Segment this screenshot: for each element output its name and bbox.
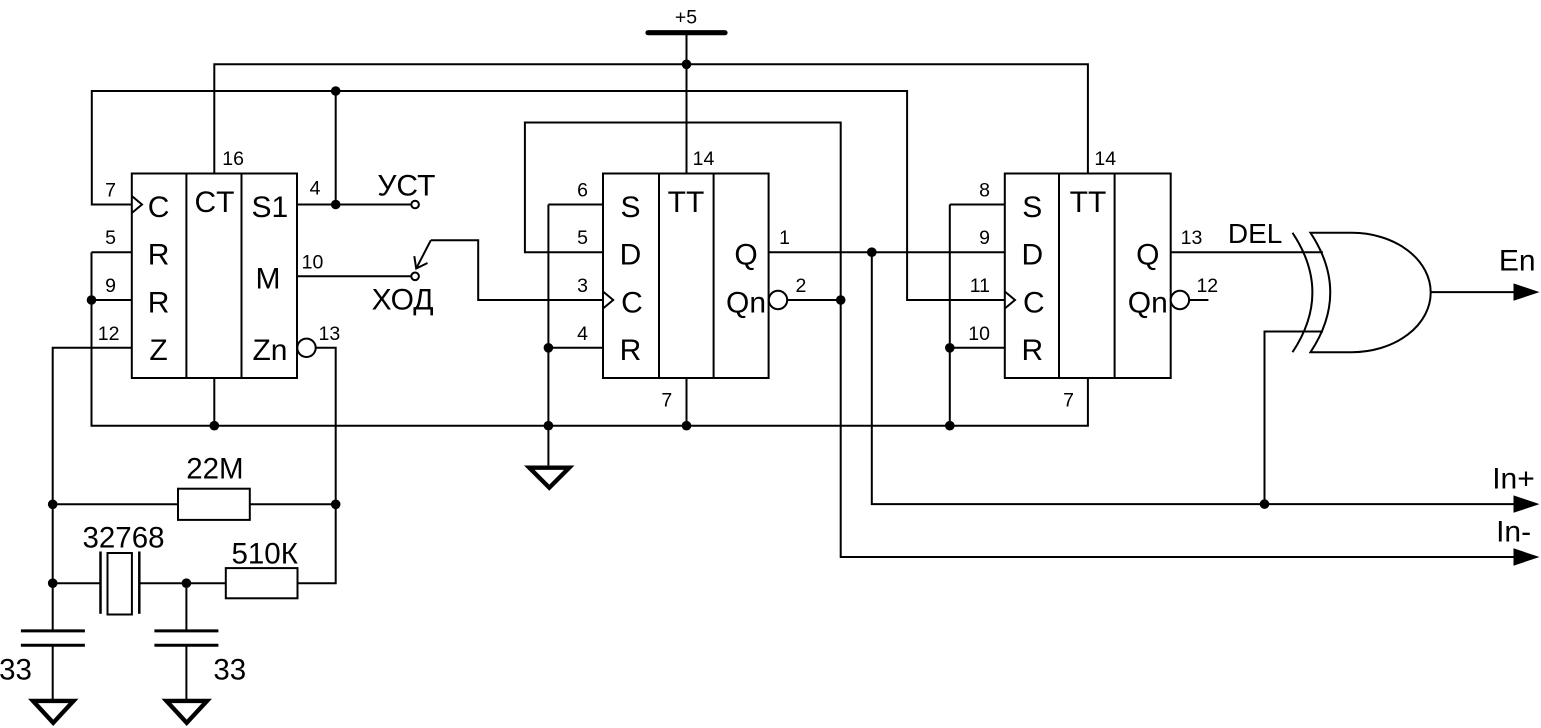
crystal ZQ1 32768 bbox=[53, 522, 226, 615]
node 22M right bbox=[331, 500, 341, 510]
svg-text:5: 5 bbox=[105, 227, 116, 249]
svg-text:TT: TT bbox=[668, 186, 705, 219]
svg-text:13: 13 bbox=[319, 323, 341, 345]
wire clock bus (DD1 pin7 to DD3 pin11) bbox=[92, 91, 1005, 300]
counter DD1 body bbox=[132, 174, 297, 379]
node DD2 pin7 on bus bbox=[682, 421, 692, 431]
svg-text:C: C bbox=[1023, 286, 1045, 319]
capacitor C1 33 bbox=[0, 583, 85, 700]
node In+ XOR branch bbox=[1260, 499, 1270, 509]
node DD2 vertical on ground bus bbox=[544, 421, 554, 431]
terminal УСТ bbox=[411, 201, 419, 209]
node S1 junction bbox=[331, 200, 341, 210]
svg-text:M: M bbox=[256, 263, 281, 296]
node DD3 vertical on ground bus bbox=[945, 421, 955, 431]
wire Q branch down to In+ bbox=[872, 252, 1516, 504]
svg-text:510К: 510К bbox=[231, 538, 298, 571]
svg-text:33: 33 bbox=[0, 653, 32, 686]
node clock bus branch bbox=[331, 86, 341, 96]
wire switch to DD2 pin3 C bbox=[431, 240, 603, 300]
svg-text:ХОД: ХОД bbox=[372, 284, 434, 317]
svg-text:+5: +5 bbox=[675, 6, 697, 28]
svg-text:Q: Q bbox=[1136, 239, 1159, 272]
output bubble DD2 Qn bbox=[769, 291, 787, 309]
svg-text:In-: In- bbox=[1496, 516, 1531, 549]
wire DD2 S-R vertical to ground bus bbox=[547, 205, 549, 426]
node R pins junction bbox=[87, 295, 97, 305]
svg-text:3: 3 bbox=[577, 275, 588, 297]
svg-text:R: R bbox=[148, 286, 170, 319]
svg-text:1: 1 bbox=[779, 227, 790, 249]
ground G1 bbox=[28, 699, 79, 726]
svg-text:In+: In+ bbox=[1492, 463, 1535, 496]
svg-text:Qn: Qn bbox=[1128, 286, 1168, 319]
wire DD2 Q pin1 to DD3 D pin9 bbox=[769, 251, 1005, 253]
output bubble DD3 Qn bbox=[1171, 291, 1189, 309]
node DD2 Qn junction bbox=[836, 295, 846, 305]
wire DD1 R pin5 bbox=[92, 251, 132, 253]
wire +5 down to DD2 pin 14 bbox=[686, 33, 688, 174]
wire DD2 feedback Qn to D and to In- bbox=[525, 123, 1516, 558]
wire ground stub DD2 bbox=[547, 426, 549, 466]
svg-text:33: 33 bbox=[213, 653, 246, 686]
xor gate DD4 bbox=[1293, 233, 1431, 352]
node DD1 bottom pin on bus bbox=[210, 421, 220, 431]
svg-text:Qn: Qn bbox=[726, 286, 766, 319]
node DD2 R junction bbox=[544, 343, 554, 353]
wire DD2 S pin6 bbox=[548, 204, 603, 206]
wire DD3 R pin10 bbox=[950, 347, 1005, 349]
node DD2 Q branch bbox=[867, 247, 877, 257]
svg-text:En: En bbox=[1499, 245, 1536, 278]
wire Zn to oscillator bbox=[298, 348, 336, 583]
svg-text:S1: S1 bbox=[252, 191, 289, 224]
svg-text:32768: 32768 bbox=[82, 522, 164, 555]
resistor R2 510К bbox=[226, 538, 299, 599]
wire DD3 S pin8 bbox=[950, 204, 1005, 206]
flip-flop DD2 body bbox=[603, 174, 769, 379]
svg-text:14: 14 bbox=[1094, 148, 1116, 170]
wire DD1 R pin9 bbox=[92, 299, 132, 301]
svg-text:S: S bbox=[620, 191, 640, 224]
svg-text:7: 7 bbox=[661, 390, 672, 412]
svg-text:R: R bbox=[620, 334, 642, 367]
wire XOR lower input bbox=[1265, 332, 1324, 505]
svg-text:S: S bbox=[1022, 191, 1042, 224]
svg-text:7: 7 bbox=[1063, 390, 1074, 412]
svg-text:D: D bbox=[620, 239, 642, 272]
svg-text:4: 4 bbox=[577, 323, 588, 345]
svg-text:9: 9 bbox=[979, 227, 990, 249]
switch SA1 lever arrow bbox=[414, 240, 431, 268]
wire top supply bus (CT pin16 to DD3 pin14) bbox=[214, 64, 1088, 173]
svg-text:Z: Z bbox=[149, 334, 167, 367]
node 22M left bbox=[48, 500, 58, 510]
svg-text:14: 14 bbox=[693, 148, 715, 170]
capacitor C2 33 bbox=[154, 583, 246, 700]
arrow En bbox=[1514, 283, 1540, 300]
ground G3 bbox=[524, 466, 575, 491]
svg-text:Zn: Zn bbox=[252, 334, 287, 367]
wire DD2 Qn stub bbox=[787, 299, 841, 301]
wire S1 branch from clock bus bbox=[335, 91, 337, 205]
svg-text:11: 11 bbox=[970, 275, 990, 297]
wire DD3 Q pin13 DEL to XOR bbox=[1171, 251, 1323, 253]
svg-text:4: 4 bbox=[310, 178, 321, 200]
svg-text:7: 7 bbox=[105, 180, 116, 202]
wire ground bus bbox=[92, 252, 1088, 426]
svg-text:5: 5 bbox=[577, 227, 588, 249]
svg-text:10: 10 bbox=[302, 251, 324, 273]
wire DD1 pin4 S1 to УСТ terminal bbox=[297, 204, 411, 206]
svg-text:DEL: DEL bbox=[1228, 218, 1282, 249]
arrow In+ bbox=[1514, 495, 1540, 512]
wire DD3 Qn stub bbox=[1189, 299, 1208, 301]
svg-text:CT: CT bbox=[195, 186, 235, 219]
svg-text:10: 10 bbox=[968, 323, 990, 345]
svg-text:C: C bbox=[621, 286, 643, 319]
flip-flop DD3 body bbox=[1005, 174, 1171, 379]
node crystal right bbox=[182, 578, 192, 588]
svg-text:УСТ: УСТ bbox=[377, 170, 435, 203]
wire DD1 pin10 M to ХОД terminal bbox=[297, 275, 411, 277]
wire DD2 pin7 to ground bus bbox=[686, 378, 688, 426]
svg-text:TT: TT bbox=[1070, 186, 1107, 219]
svg-text:R: R bbox=[148, 239, 170, 272]
wire DD2 R pin4 bbox=[548, 347, 603, 349]
wire XOR output En bbox=[1431, 291, 1516, 293]
svg-text:13: 13 bbox=[1181, 227, 1203, 249]
svg-text:12: 12 bbox=[98, 323, 120, 345]
svg-text:C: C bbox=[148, 191, 170, 224]
arrow In- bbox=[1514, 548, 1540, 565]
svg-text:8: 8 bbox=[979, 180, 990, 202]
node crystal left bbox=[48, 578, 58, 588]
node DD3 R junction bbox=[945, 343, 955, 353]
ground G2 bbox=[162, 699, 213, 726]
svg-text:Q: Q bbox=[734, 239, 757, 272]
svg-text:16: 16 bbox=[222, 148, 244, 170]
dynamic input mark DD1 pin C bbox=[132, 196, 142, 213]
svg-text:6: 6 bbox=[577, 180, 588, 202]
power +5 symbol bbox=[648, 6, 725, 32]
svg-text:12: 12 bbox=[1196, 275, 1218, 297]
svg-text:22M: 22M bbox=[186, 452, 243, 485]
wire DD1 Z pin12 bbox=[53, 348, 132, 583]
wire DD1 bottom pin bbox=[213, 378, 215, 426]
svg-text:D: D bbox=[1021, 239, 1043, 272]
resistor R1 22M bbox=[53, 452, 336, 520]
wire DD3 S-R vertical to ground bus bbox=[949, 205, 951, 426]
svg-text:R: R bbox=[1021, 334, 1043, 367]
svg-text:9: 9 bbox=[105, 275, 116, 297]
output bubble DD1 Zn bbox=[297, 339, 315, 357]
terminal ХОД bbox=[411, 273, 419, 281]
svg-text:2: 2 bbox=[795, 275, 806, 297]
node supply junction bbox=[682, 60, 692, 70]
